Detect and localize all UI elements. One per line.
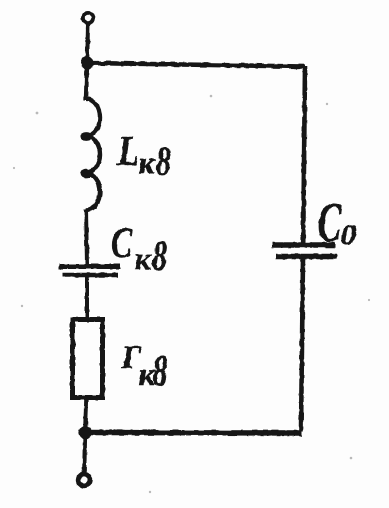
svg-text:8: 8: [152, 232, 167, 279]
svg-text:C: C: [318, 192, 342, 254]
svg-text:8: 8: [153, 348, 168, 396]
svg-text:8: 8: [156, 138, 171, 184]
svg-text:0: 0: [341, 219, 357, 251]
svg-text:C: C: [111, 219, 133, 267]
svg-text:L: L: [117, 128, 140, 174]
svg-text:к: к: [135, 241, 152, 277]
svg-text:к: к: [139, 145, 156, 181]
